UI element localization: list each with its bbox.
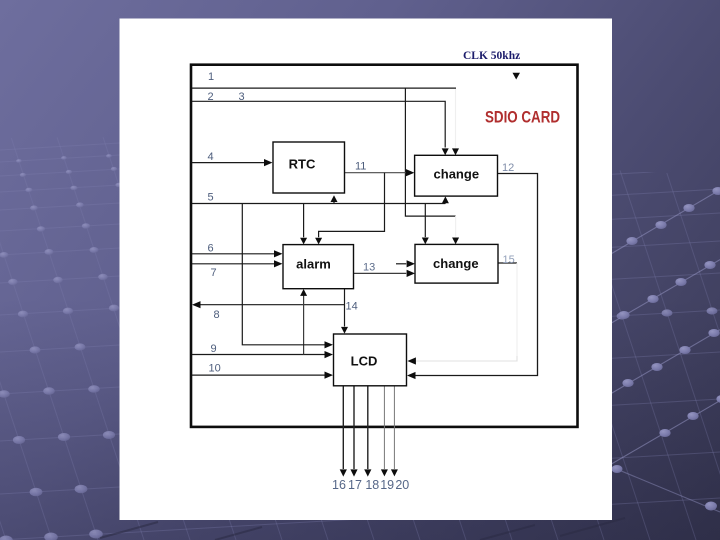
svg-text:RTC: RTC <box>289 157 316 172</box>
LCD output wire 19 <box>381 386 388 477</box>
wire 12 change U1 to LCD right <box>407 174 538 380</box>
LCD output wire 20 <box>391 386 398 477</box>
wire 15 hidden path to LCD right <box>407 263 517 365</box>
wire pin1 hidden drop into change U1 top <box>452 89 459 155</box>
svg-text:10: 10 <box>209 363 221 375</box>
wire bus5 to LCD <box>242 204 333 349</box>
svg-text:12: 12 <box>502 162 514 174</box>
svg-text:6: 6 <box>208 243 214 255</box>
svg-text:14: 14 <box>346 301 358 313</box>
svg-text:CLK 50khz: CLK 50khz <box>463 50 520 62</box>
wire bus5 tap to alarm top <box>300 204 307 245</box>
svg-text:1: 1 <box>208 71 214 83</box>
wire 9 into LCD <box>192 351 333 358</box>
svg-text:2: 2 <box>208 91 214 103</box>
svg-text:18: 18 <box>365 478 379 492</box>
block RTC <box>273 142 345 193</box>
wire 5 bus <box>192 196 449 203</box>
wire 9 tap up into alarm bottom <box>300 289 307 355</box>
wire 1 <box>192 87 456 89</box>
wire 4 into RTC <box>192 159 273 166</box>
wire 15 stub from change U2 <box>498 262 517 264</box>
wire 11 RTC to change U1 <box>345 169 415 176</box>
svg-text:3: 3 <box>239 91 245 103</box>
svg-text:20: 20 <box>395 478 409 492</box>
block alarm <box>283 245 354 289</box>
wire 13 short into change U2 <box>396 260 415 267</box>
wire 5 tap up into RTC bottom <box>331 195 338 203</box>
svg-text:8: 8 <box>214 309 220 321</box>
block change U1 <box>415 155 498 196</box>
wire 10 into LCD <box>192 372 333 379</box>
wire 11 branch to alarm top <box>315 173 384 245</box>
svg-text:change: change <box>434 167 480 182</box>
svg-text:4: 4 <box>208 151 214 163</box>
wire 2 into change U1 top <box>192 101 449 155</box>
svg-text:13: 13 <box>363 262 375 274</box>
wire 6 into alarm <box>192 250 283 257</box>
block LCD <box>334 334 407 386</box>
svg-text:alarm: alarm <box>296 257 331 272</box>
svg-text:15: 15 <box>503 254 515 266</box>
wire 14 alarm to LCD <box>341 289 348 334</box>
LCD output wire 18 <box>364 386 371 477</box>
CLK input arrowhead <box>513 73 521 80</box>
slide white panel <box>120 19 613 521</box>
svg-text:LCD: LCD <box>351 354 378 369</box>
svg-text:change: change <box>433 256 479 271</box>
wire 8 output to left <box>192 301 345 308</box>
svg-text:19: 19 <box>380 478 394 492</box>
svg-text:7: 7 <box>211 267 217 279</box>
wire 3 branch down to change U2 top <box>405 89 459 245</box>
svg-text:SDIO CARD: SDIO CARD <box>485 109 560 127</box>
svg-text:11: 11 <box>355 161 366 173</box>
svg-text:16: 16 <box>332 478 346 492</box>
wire 7 into alarm <box>192 260 283 267</box>
border frame of schematic <box>191 65 578 427</box>
LCD output wire 17 <box>350 386 357 477</box>
svg-text:9: 9 <box>211 343 217 355</box>
wire bus5 tap to change U2 top <box>422 204 429 245</box>
svg-text:5: 5 <box>208 192 214 204</box>
wire alarm to change U2 <box>354 270 416 277</box>
svg-text:17: 17 <box>348 478 362 492</box>
block change U2 <box>415 244 498 283</box>
LCD output wire 16 <box>340 386 347 477</box>
